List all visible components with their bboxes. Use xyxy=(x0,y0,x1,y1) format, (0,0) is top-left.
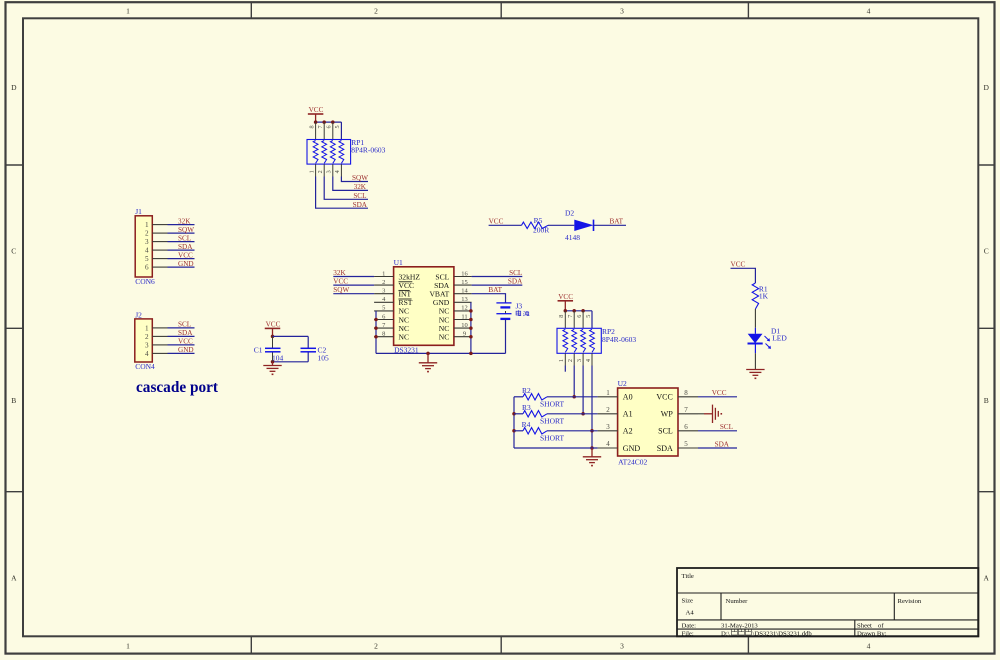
svg-text:31-May-2013: 31-May-2013 xyxy=(721,623,758,630)
wire J1.5 to VCC xyxy=(168,258,195,260)
resistor RP1 element b xyxy=(322,141,327,164)
title block value 31-May-2013 xyxy=(721,623,758,630)
pin U2.5 xyxy=(678,440,698,448)
svg-text:13: 13 xyxy=(461,296,468,303)
svg-text:105: 105 xyxy=(318,354,330,363)
net label SDA (U1) xyxy=(508,278,523,286)
ic U1 left label 32kHZ pin 1 xyxy=(399,272,421,281)
ic U1 designator xyxy=(394,258,403,267)
net label SCL (RP1) xyxy=(353,192,366,200)
svg-text:200R: 200R xyxy=(533,225,549,234)
net label VCC (R5) xyxy=(489,218,504,226)
svg-text:VCC: VCC xyxy=(558,293,573,301)
svg-text:D: D xyxy=(11,83,17,92)
pin U2.2 xyxy=(598,406,618,414)
svg-text:6: 6 xyxy=(145,264,149,272)
svg-text:GND: GND xyxy=(178,260,194,268)
junction RP2 pin6 xyxy=(581,309,585,313)
svg-text:A0: A0 xyxy=(623,393,633,402)
svg-text:Title: Title xyxy=(682,573,694,580)
svg-text:104: 104 xyxy=(272,354,284,363)
wire RP2.4 to A2/GND net xyxy=(591,366,593,449)
label R2 value SHORT xyxy=(540,400,565,409)
pin RP2.5 number xyxy=(585,315,592,318)
zone tick right C|B xyxy=(978,327,994,329)
ic U2 right label VCC pin 8 xyxy=(656,393,672,402)
zone number 2 top xyxy=(374,6,378,15)
svg-text:1: 1 xyxy=(382,270,385,277)
svg-text:15: 15 xyxy=(461,279,468,286)
pin U1.8 xyxy=(374,331,394,338)
title block label Number xyxy=(726,598,749,605)
wire VCC to R1 xyxy=(731,268,756,283)
svg-text:32K: 32K xyxy=(333,269,346,277)
wire J1.2 to SQW xyxy=(168,232,195,234)
label CON6 xyxy=(135,277,155,286)
label R5 value 200R xyxy=(533,225,549,234)
label J3 xyxy=(516,302,523,311)
pin RP2.3 xyxy=(576,353,583,365)
wire J1.6 to GND xyxy=(168,266,195,268)
net label 32K (RP1) xyxy=(354,183,367,191)
pin U1.1 xyxy=(374,270,394,277)
zone number 4 bottom xyxy=(867,642,871,651)
wire R1 to D1 xyxy=(754,309,756,334)
svg-text:14: 14 xyxy=(461,288,468,295)
svg-text:of: of xyxy=(878,623,884,630)
svg-text:J3: J3 xyxy=(516,302,523,311)
net label SQW (U1) xyxy=(333,286,349,294)
ic U1 left label NC pin 8 xyxy=(399,333,410,342)
wire C2 right drop xyxy=(307,336,309,348)
zone tick left C|B xyxy=(6,327,24,329)
svg-text:4: 4 xyxy=(606,440,610,448)
resistor RP2 element b xyxy=(572,329,577,352)
junction rail NC bus xyxy=(469,352,473,356)
svg-text:1: 1 xyxy=(126,642,130,651)
net label GND (J2) xyxy=(178,346,194,354)
net label VCC (R1) xyxy=(731,261,746,269)
ic U2 right label WP pin 7 xyxy=(661,410,674,419)
svg-text:U2: U2 xyxy=(618,379,627,388)
svg-text:SDA: SDA xyxy=(178,243,193,251)
junction RP2 pin8 xyxy=(564,309,568,313)
zone tick bottom 1|2 xyxy=(250,636,252,653)
svg-text:R2: R2 xyxy=(522,386,531,395)
pin J2.2 xyxy=(145,333,167,341)
svg-text:5: 5 xyxy=(585,315,592,318)
connector J1 body xyxy=(135,216,152,277)
net label SDA (J2) xyxy=(178,329,193,337)
wire U1 bottom rail xyxy=(376,352,506,354)
ic U1 left label NC pin 5 xyxy=(399,307,410,316)
net label 32K (J1) xyxy=(178,217,191,225)
svg-text:3: 3 xyxy=(606,423,610,431)
pin U2.3 xyxy=(598,423,618,431)
svg-text:SCL: SCL xyxy=(658,427,673,436)
wire U1.16 to SCL xyxy=(472,276,523,278)
pin J1.1 xyxy=(145,221,167,229)
svg-text:4148: 4148 xyxy=(565,233,580,242)
svg-text:6: 6 xyxy=(684,423,688,431)
ic U1 right label NC pin 9 xyxy=(439,333,450,342)
svg-text:VCC: VCC xyxy=(489,218,504,226)
pin U1.2 xyxy=(374,279,394,286)
svg-text:C: C xyxy=(984,247,989,256)
pin U2.6 xyxy=(678,423,698,431)
wire RP2.3 to A1 net xyxy=(582,366,584,414)
ground (U1) xyxy=(419,353,437,372)
net label SQW (RP1) xyxy=(352,174,368,182)
svg-text:Number: Number xyxy=(726,598,749,605)
svg-text:SCL: SCL xyxy=(178,234,191,242)
svg-text:D2: D2 xyxy=(565,208,574,217)
svg-text:1: 1 xyxy=(308,170,315,173)
pin U1.3 xyxy=(374,288,394,295)
svg-text:A1: A1 xyxy=(623,410,633,419)
pin RP1.4 xyxy=(334,164,341,176)
svg-text:A: A xyxy=(11,574,17,583)
wire U1.14 to battery J3 xyxy=(472,294,506,303)
pin RP1.2 xyxy=(317,164,324,176)
svg-text:SDA: SDA xyxy=(508,278,523,286)
ic U1 right label SDA pin 15 xyxy=(434,281,450,290)
zone tick top 2|3 xyxy=(500,2,502,18)
label C1 xyxy=(254,345,263,354)
svg-text:1: 1 xyxy=(145,221,149,229)
svg-text:8: 8 xyxy=(308,125,315,128)
svg-text:BAT: BAT xyxy=(488,286,502,294)
label R2 xyxy=(522,386,531,395)
wire C1-C2 bottom xyxy=(273,352,309,362)
svg-text:SDA: SDA xyxy=(178,329,193,337)
title block label Revision xyxy=(898,598,922,605)
resistor RP1 element c xyxy=(330,141,335,164)
svg-text:4: 4 xyxy=(585,359,592,362)
pin RP1.5 number xyxy=(334,125,341,128)
net label SCL (U2) xyxy=(720,423,733,431)
wire U2.6 to SCL xyxy=(698,430,737,432)
wire RP2.1 stub xyxy=(564,366,566,372)
junction RP1 pin7 xyxy=(322,120,326,124)
svg-text:SQW: SQW xyxy=(178,226,194,234)
ic U1 right label SCL pin 16 xyxy=(435,272,449,281)
connector J2 designator xyxy=(135,310,142,319)
junction U1.7 NC xyxy=(374,326,378,330)
label R1 value 1K xyxy=(759,292,769,301)
junction C1 top xyxy=(271,335,275,339)
svg-text:1: 1 xyxy=(126,6,130,15)
pin RP1.1 xyxy=(308,164,315,176)
svg-text:B: B xyxy=(11,396,16,405)
zone letter C right xyxy=(984,247,989,256)
zone number 4 top xyxy=(867,6,871,15)
zone number 1 top xyxy=(126,6,130,15)
label D2 value 4148 xyxy=(565,233,580,242)
wire J2.2 to SDA xyxy=(168,335,195,337)
title block label Drawn By xyxy=(857,630,887,637)
svg-text:SCL: SCL xyxy=(353,192,366,200)
label RP2 value 8P4R-0603 xyxy=(602,335,636,344)
label DS3231 xyxy=(394,345,419,354)
svg-text:6: 6 xyxy=(576,315,583,318)
wire J2.3 to VCC xyxy=(168,344,195,346)
svg-text:8P4R-0603: 8P4R-0603 xyxy=(351,146,385,155)
svg-text:SHORT: SHORT xyxy=(540,417,565,426)
svg-text:Drawn By:: Drawn By: xyxy=(857,630,887,637)
svg-text:4: 4 xyxy=(145,247,149,255)
resistor pack RP1 body xyxy=(307,140,351,165)
svg-text:A2: A2 xyxy=(623,427,633,436)
pin U2.7 xyxy=(678,406,698,414)
svg-text:8: 8 xyxy=(382,331,385,338)
junction C1 bottom xyxy=(271,360,275,364)
title block label Date xyxy=(682,623,697,630)
wire C1-C2 top xyxy=(273,335,309,337)
resistor RP1 element a xyxy=(313,141,318,164)
resistor R1 xyxy=(752,283,758,309)
pin U1.12 xyxy=(454,305,472,312)
svg-text:Revision: Revision xyxy=(898,598,922,605)
pin U2.8 xyxy=(678,389,698,397)
label R3 value SHORT xyxy=(540,417,565,426)
wire U2.5 to SDA xyxy=(698,447,737,449)
pin J1.2 xyxy=(145,230,167,238)
svg-text:Date:: Date: xyxy=(682,623,697,630)
ic U1 left label NC pin 7 xyxy=(399,324,410,333)
svg-text:SCL: SCL xyxy=(509,269,522,277)
net label SCL (J1) xyxy=(178,234,191,242)
connector J1 designator xyxy=(135,207,142,216)
pin U1.16 xyxy=(454,270,472,277)
svg-text:1: 1 xyxy=(145,324,149,332)
zone letter D right xyxy=(983,83,989,92)
svg-text:CON6: CON6 xyxy=(135,277,155,286)
zone number 3 top xyxy=(620,6,624,15)
svg-text:C: C xyxy=(11,247,16,256)
svg-text:7: 7 xyxy=(567,315,574,318)
ic U1 right label NC pin 11 xyxy=(439,315,450,324)
wire VCC to U1.2 xyxy=(333,284,374,286)
svg-text:J1: J1 xyxy=(135,207,142,216)
resistor RP2 element c xyxy=(581,329,586,352)
svg-text:2: 2 xyxy=(382,279,385,286)
pin U1.6 xyxy=(374,313,394,320)
zone letter B right xyxy=(984,396,989,405)
svg-text:3: 3 xyxy=(326,170,333,173)
zone letter C left xyxy=(11,247,16,256)
zone tick left D|C xyxy=(6,164,24,166)
junction R3 left xyxy=(512,412,516,416)
svg-text:VCC: VCC xyxy=(178,338,193,346)
pin U1.5 xyxy=(374,305,394,312)
zone number 2 bottom xyxy=(374,642,378,651)
zone tick top 3|4 xyxy=(747,2,749,18)
svg-text:SHORT: SHORT xyxy=(540,434,565,443)
resistor pack RP2 body xyxy=(557,328,601,353)
net label BAT (D2) xyxy=(610,218,624,226)
pin J2.3 xyxy=(145,341,167,349)
svg-text:D:\: D:\ xyxy=(721,630,730,637)
pin U1.11 xyxy=(454,313,472,320)
svg-text:R4: R4 xyxy=(522,420,531,429)
junction U1.11 NC xyxy=(469,318,473,322)
junction RP2.3/A1 xyxy=(581,412,585,416)
svg-text:3: 3 xyxy=(620,6,624,15)
junction U1.9 NC xyxy=(469,335,473,339)
svg-text:BAT: BAT xyxy=(610,218,624,226)
svg-text:5: 5 xyxy=(684,440,688,448)
junction U1.8 NC xyxy=(374,335,378,339)
junction RP1 pin8 xyxy=(314,120,318,124)
zone tick right B|A xyxy=(978,491,994,493)
ic U2 designator xyxy=(618,379,627,388)
svg-text:1: 1 xyxy=(606,389,610,397)
label R4 xyxy=(522,420,531,429)
net label 32K (U1) xyxy=(333,269,346,277)
ic U2 left label A1 pin 2 xyxy=(623,410,633,419)
svg-text:2: 2 xyxy=(145,333,149,341)
ic U1 left label NC pin 6 xyxy=(399,315,410,324)
svg-text:Size: Size xyxy=(682,597,694,604)
ic U2 right label SDA pin 5 xyxy=(657,444,673,453)
label R5 xyxy=(534,216,543,225)
net label VCC (J1) xyxy=(178,251,193,259)
title block value file path xyxy=(721,629,812,637)
label C2 value 105 xyxy=(318,354,330,363)
svg-text:VCC: VCC xyxy=(656,393,672,402)
junction U1.10 NC xyxy=(469,326,473,330)
svg-text:cascade port: cascade port xyxy=(136,379,219,396)
svg-text:11: 11 xyxy=(461,313,467,320)
zone letter A left xyxy=(11,574,17,583)
title block value A4 xyxy=(686,609,695,616)
svg-text:3: 3 xyxy=(145,238,149,246)
ic U1 left label INT pin 3 xyxy=(399,290,412,299)
svg-text:Sheet: Sheet xyxy=(857,623,872,630)
title block label File xyxy=(682,630,694,637)
wire VCC bus to RP2 pins xyxy=(565,310,592,312)
net label BAT (U1) xyxy=(488,286,502,294)
pin RP2.6 xyxy=(576,311,583,329)
label J3 value battery (CJK) xyxy=(516,310,529,316)
ground (D1) xyxy=(746,370,764,380)
svg-text:2: 2 xyxy=(606,406,610,414)
svg-text:SQW: SQW xyxy=(333,286,349,294)
pin U1.10 xyxy=(454,322,472,329)
svg-text:2: 2 xyxy=(567,359,574,362)
label D1 value LED xyxy=(772,334,787,343)
svg-text:4: 4 xyxy=(145,350,149,358)
zone tick bottom 3|4 xyxy=(747,636,749,653)
resistor R2 xyxy=(514,394,598,400)
svg-text:C1: C1 xyxy=(254,345,263,354)
pin U1.4 xyxy=(374,296,394,303)
zone tick right D|C xyxy=(978,164,994,166)
zone letter D left xyxy=(11,83,17,92)
zone tick bottom 2|3 xyxy=(500,636,502,653)
resistor R3 xyxy=(514,411,598,417)
svg-text:32K: 32K xyxy=(178,217,191,225)
wire SQW to U1.3 xyxy=(333,293,374,295)
svg-text:VCC: VCC xyxy=(731,261,746,269)
svg-text:10: 10 xyxy=(461,322,468,329)
pin U1.7 xyxy=(374,322,394,329)
svg-text:B: B xyxy=(984,396,989,405)
svg-text:SDA: SDA xyxy=(657,444,673,453)
net label SDA (RP1) xyxy=(353,201,368,209)
ic U2 left label A0 pin 1 xyxy=(623,393,633,402)
title block label Sheet of xyxy=(857,623,884,630)
connector J2 body xyxy=(135,319,153,362)
net label VCC (U1) xyxy=(333,278,348,286)
zone tick top 1|2 xyxy=(250,2,252,18)
pin RP2.7 xyxy=(567,311,574,329)
label R4 value SHORT xyxy=(540,434,565,443)
pin J2.4 xyxy=(145,350,167,358)
svg-text:1: 1 xyxy=(558,359,565,362)
svg-text:VCC: VCC xyxy=(178,251,193,259)
junction U1.6 NC xyxy=(374,318,378,322)
pin RP2.2 xyxy=(567,353,574,365)
resistor RP2 element d xyxy=(590,329,595,352)
wire U2.7 to WP ground xyxy=(698,413,713,415)
ic U1 right label VBAT pin 14 xyxy=(429,290,449,299)
zone letter B left xyxy=(11,396,16,405)
junction U1.12 NC xyxy=(469,309,473,313)
ic U2 body xyxy=(618,388,678,456)
wire RP1 pin5 drop xyxy=(340,122,342,139)
svg-text:4: 4 xyxy=(867,6,871,15)
pin U1.9 xyxy=(454,331,472,338)
svg-text:GND: GND xyxy=(178,346,194,354)
text cascade port xyxy=(136,379,219,396)
resistor RP1 element d xyxy=(339,141,344,164)
svg-text:7: 7 xyxy=(684,406,688,414)
svg-text:AT24C02: AT24C02 xyxy=(618,457,647,466)
zone number 1 bottom xyxy=(126,642,130,651)
label D2 xyxy=(565,208,574,217)
svg-text:VCC: VCC xyxy=(309,106,324,114)
svg-text:2: 2 xyxy=(374,6,378,15)
svg-text:8P4R-0603: 8P4R-0603 xyxy=(602,335,636,344)
wire J2.1 to SCL xyxy=(168,327,195,329)
pin RP1.7 xyxy=(317,122,324,139)
ic U1 left label RST pin 4 xyxy=(399,298,413,307)
junction RP2.4/GND xyxy=(590,446,594,450)
svg-text:SDA: SDA xyxy=(715,440,730,448)
wire RP2 pin5 drop xyxy=(591,311,593,329)
svg-text:D: D xyxy=(983,83,989,92)
junction R4 left xyxy=(512,429,516,433)
net label VCC (J2) xyxy=(178,338,193,346)
net label SDA (J1) xyxy=(178,243,193,251)
svg-text:5: 5 xyxy=(334,125,341,128)
wire U1 right NC bus xyxy=(470,302,472,353)
junction rail gnd stem xyxy=(426,352,430,356)
label RP2 xyxy=(602,327,615,336)
pin U2.4 xyxy=(598,440,618,448)
zone tick left B|A xyxy=(6,491,24,493)
wire U1 left NC bus xyxy=(375,311,377,354)
power VCC (RP1) xyxy=(308,106,324,122)
svg-text:32K: 32K xyxy=(354,183,367,191)
ground sideways (WP) xyxy=(713,405,723,423)
svg-text:16: 16 xyxy=(461,270,468,277)
pin J2.1 xyxy=(145,324,167,332)
ic U1 left label VCC pin 2 xyxy=(399,281,415,290)
capacitor C1 xyxy=(265,336,281,361)
